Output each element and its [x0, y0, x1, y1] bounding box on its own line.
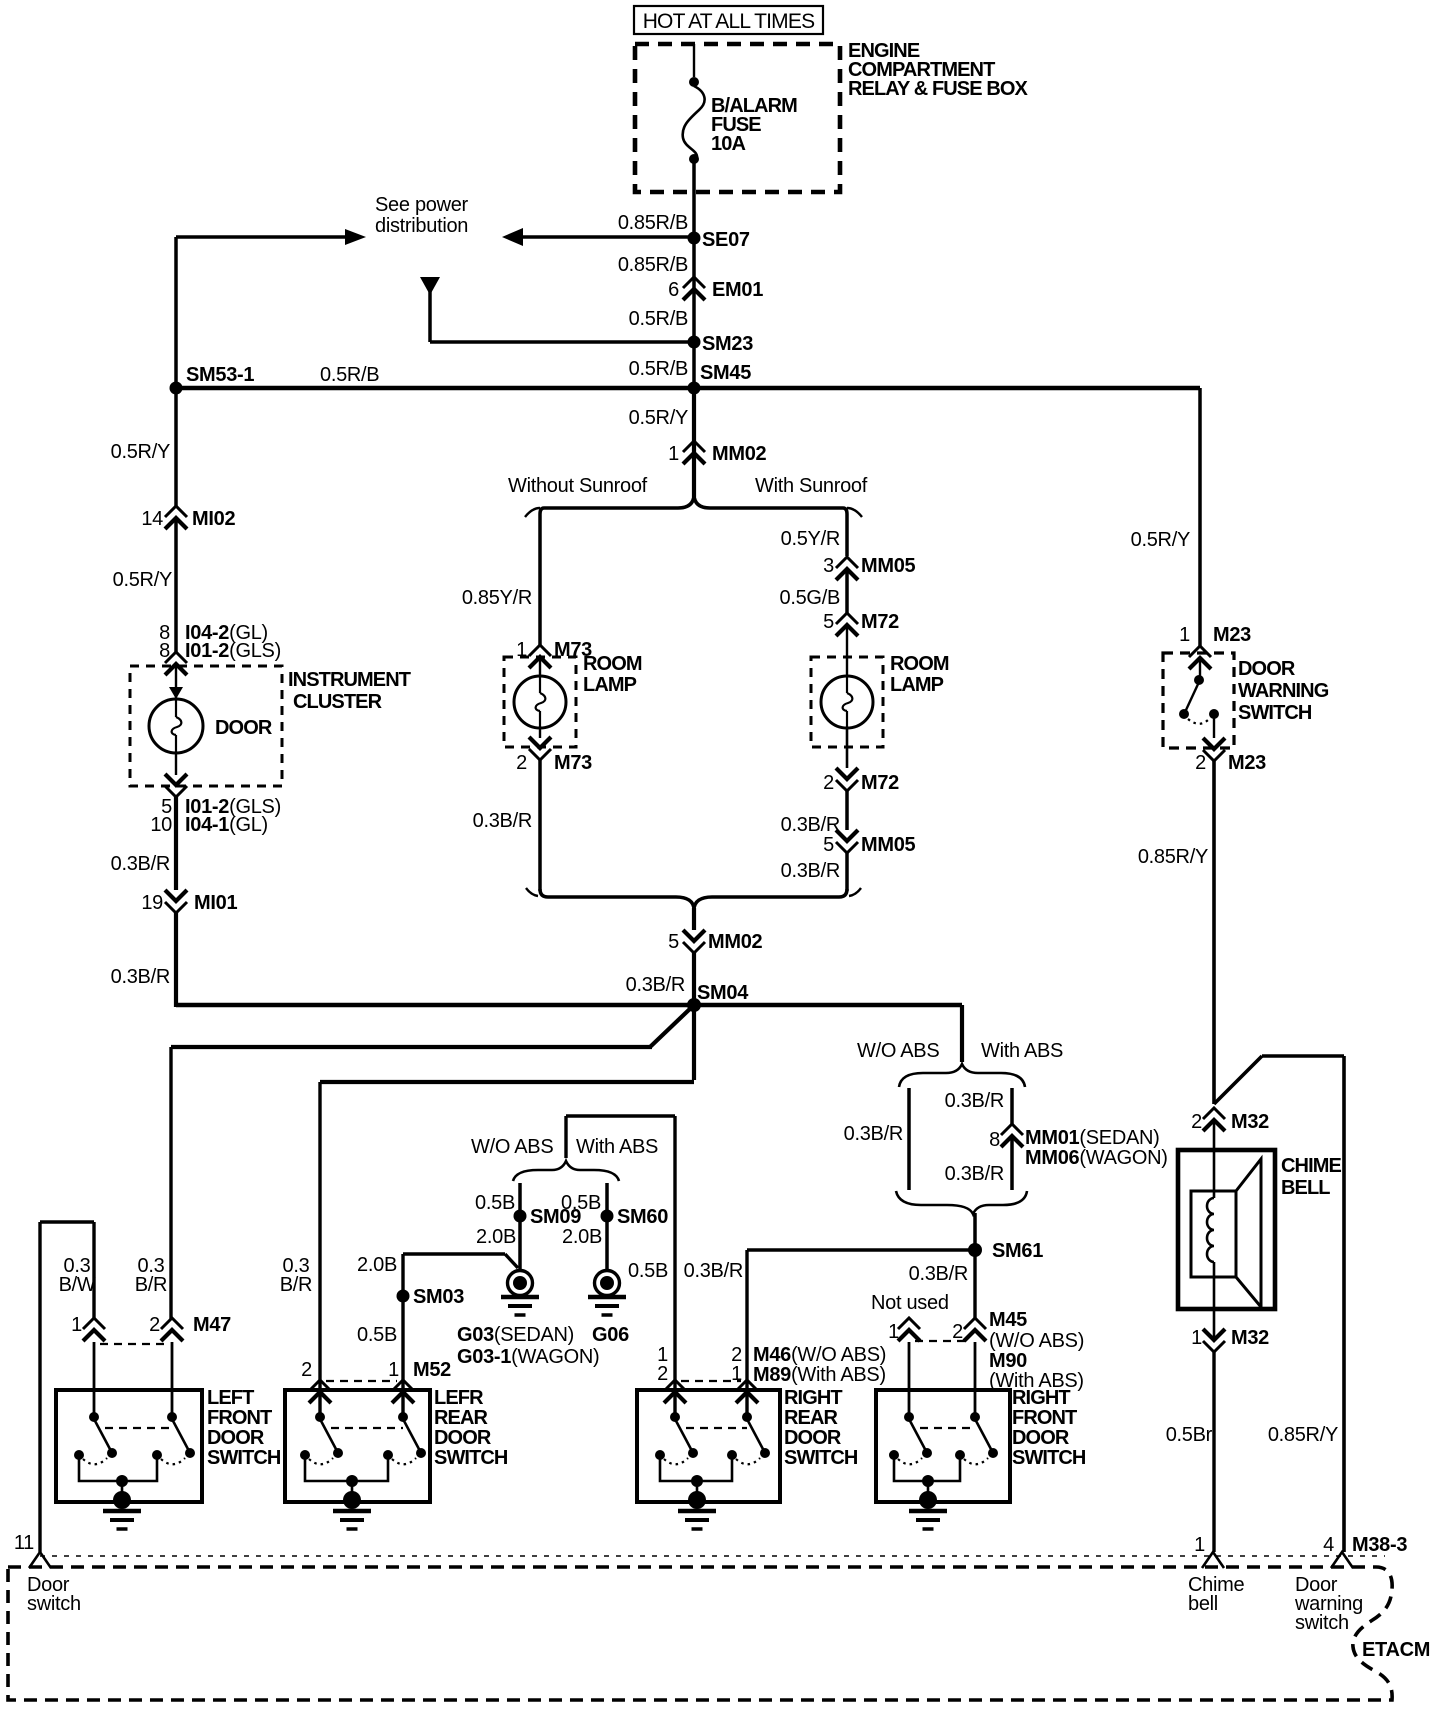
svg-text:0.3B/W: 0.3B/W: [59, 1255, 96, 1296]
svg-text:G03(SEDAN): G03(SEDAN): [457, 1324, 574, 1346]
wire bypass to door warning ETACM pin 4: [1214, 1056, 1344, 1552]
svg-text:5: 5: [823, 611, 834, 633]
svg-text:6: 6: [668, 279, 679, 301]
connector M45/M90 pins 1 2: [888, 1318, 986, 1343]
svg-text:0.3B/R: 0.3B/R: [844, 1123, 903, 1145]
wire 0.5B left (W/O ABS): [475, 1183, 520, 1272]
svg-text:0.3B/R: 0.3B/R: [473, 810, 532, 832]
svg-text:EM01: EM01: [712, 279, 763, 301]
svg-text:M32: M32: [1231, 1327, 1269, 1349]
wire 0.3 B/R to left front pin 2: [169, 1047, 172, 1320]
svg-text:HOT AT ALL TIMES: HOT AT ALL TIMES: [643, 10, 815, 33]
svg-text:2.0B: 2.0B: [562, 1226, 602, 1248]
svg-text:0.5B: 0.5B: [628, 1260, 668, 1282]
svg-text:0.5B: 0.5B: [475, 1192, 515, 1214]
svg-text:LEFRREARDOORSWITCH: LEFRREARDOORSWITCH: [434, 1387, 508, 1469]
wire 0.3B/R to SM04: [626, 953, 694, 1005]
connector M73 pin 2: [516, 728, 592, 774]
svg-text:Doorswitch: Doorswitch: [27, 1574, 81, 1615]
svg-text:1: 1: [888, 1321, 899, 1343]
wire SM61 to right rear pin 2: [747, 1250, 975, 1417]
svg-text:2: 2: [952, 1321, 963, 1343]
svg-text:DOORWARNINGSWITCH: DOORWARNINGSWITCH: [1238, 658, 1329, 724]
node SM09: [514, 1206, 582, 1228]
svg-text:0.85R/B: 0.85R/B: [618, 254, 688, 276]
svg-text:W/O ABS: W/O ABS: [857, 1040, 939, 1062]
svg-text:I01-2(GLS): I01-2(GLS): [185, 640, 281, 662]
wire 0.5R/Y: [111, 388, 176, 506]
svg-text:I04-1(GL): I04-1(GL): [185, 814, 268, 836]
svg-text:RIGHTREARDOORSWITCH: RIGHTREARDOORSWITCH: [784, 1387, 858, 1469]
connector chevrons right rear pins: [664, 1380, 758, 1403]
svg-text:Not used: Not used: [871, 1292, 949, 1314]
svg-text:M46(W/O ABS): M46(W/O ABS): [753, 1344, 886, 1366]
svg-text:MI02: MI02: [192, 508, 235, 530]
svg-text:5: 5: [823, 834, 834, 856]
wire 0.5B right rear pin 1 feed: [566, 1116, 675, 1417]
svg-text:DOOR: DOOR: [215, 717, 273, 739]
wire arrow to see power distribution (left): [502, 228, 694, 246]
svg-text:8: 8: [989, 1129, 1000, 1151]
svg-text:0.5G/B: 0.5G/B: [780, 587, 840, 609]
connector M73 pin 1: [516, 639, 592, 668]
svg-text:12: 12: [657, 1344, 668, 1385]
wire 0.3B/R left branch: [844, 1088, 909, 1190]
svg-text:See powerdistribution: See powerdistribution: [375, 194, 469, 237]
connector M52 pins 2 1: [301, 1359, 451, 1403]
svg-text:0.5Br: 0.5Br: [1166, 1424, 1213, 1446]
svg-text:0.85R/Y: 0.85R/Y: [1138, 846, 1208, 868]
connector I01-2/I04-1 pins 5/10: [161, 753, 281, 818]
svg-text:With ABS: With ABS: [981, 1040, 1063, 1062]
wire harness split without/with sunroof: [525, 494, 862, 645]
engine compartment relay & fuse box (dashed): [635, 40, 1029, 192]
svg-text:SE07: SE07: [702, 229, 750, 251]
svg-text:M52: M52: [413, 1359, 451, 1381]
wire 2.0B from SM03 to ground: [357, 1254, 518, 1276]
svg-text:0.3B/R: 0.3B/R: [945, 1163, 1004, 1185]
svg-text:W/O ABS: W/O ABS: [471, 1136, 553, 1158]
svg-text:2: 2: [1191, 1111, 1202, 1133]
svg-text:(W/O ABS): (W/O ABS): [989, 1330, 1084, 1352]
wire 0.3B/R lower: [111, 913, 176, 1007]
svg-text:0.5Y/R: 0.5Y/R: [781, 528, 840, 550]
connector M23 pin 2: [1195, 738, 1266, 774]
svg-text:B/ALARMFUSE10A: B/ALARMFUSE10A: [711, 95, 797, 155]
room lamp (without sunroof) dashed box: [504, 657, 576, 747]
connector ETACM pin 1 chime bell: [1194, 1534, 1224, 1568]
buzzer chime bell speaker symbol: [1191, 1120, 1261, 1338]
svg-text:3: 3: [823, 555, 834, 577]
svg-text:M45: M45: [989, 1309, 1027, 1331]
fuse B/ALARM FUSE 10A: [683, 44, 797, 240]
svg-text:1: 1: [1194, 1534, 1205, 1556]
connector M46/M89 labels right rear: [657, 1344, 886, 1386]
svg-text:11: 11: [14, 1532, 34, 1554]
svg-text:0.85R/Y: 0.85R/Y: [1268, 1424, 1338, 1446]
svg-text:19: 19: [141, 892, 163, 914]
connector M72 pin 2: [823, 728, 899, 794]
wire 0.3B/R left branch: [473, 760, 540, 891]
transistor LEFT FRONT DOOR SWITCH: [56, 1342, 281, 1529]
svg-text:5: 5: [668, 931, 679, 953]
connector M72 pin 5: [823, 611, 899, 636]
wire 0.85R/Y: [1138, 761, 1214, 1104]
lamp room lamp right: [821, 625, 873, 728]
wire from SM04 to right ABS split: [960, 1005, 964, 1062]
node SM23: [688, 333, 754, 355]
svg-text:INSTRUMENTCLUSTER: INSTRUMENTCLUSTER: [288, 669, 411, 713]
svg-text:MM02: MM02: [712, 443, 767, 465]
wire SM45 horizontal bus: [176, 386, 1200, 390]
svg-text:Chimebell: Chimebell: [1188, 1574, 1244, 1615]
svg-text:10: 10: [150, 814, 172, 836]
svg-text:ROOMLAMP: ROOMLAMP: [890, 653, 949, 696]
svg-text:2: 2: [149, 1314, 160, 1336]
svg-text:SM45: SM45: [700, 362, 751, 384]
ground G06: [588, 1271, 626, 1316]
wire brace merge right: [896, 1191, 1027, 1214]
node SM45: [688, 362, 752, 395]
connector MI01 pin 19: [141, 890, 237, 914]
svg-text:2: 2: [823, 772, 834, 794]
svg-text:LEFTFRONTDOORSWITCH: LEFTFRONTDOORSWITCH: [207, 1387, 281, 1469]
wire 0.3B/R below MM01: [945, 1136, 1012, 1190]
connector MI02 pin 14: [141, 506, 235, 530]
svg-text:0.3B/R: 0.3B/R: [111, 853, 170, 875]
svg-text:2: 2: [1195, 752, 1206, 774]
wire 0.5B right (With ABS): [561, 1183, 607, 1272]
svg-text:0.5R/Y: 0.5R/Y: [113, 569, 172, 591]
lamp DOOR indicator: [149, 664, 273, 753]
ground G03: [501, 1271, 539, 1316]
connector MM05 pin 3: [823, 555, 915, 580]
svg-text:M47: M47: [193, 1314, 231, 1336]
node ETACM box (dashed outline): [8, 1567, 1392, 1700]
wire harness merge to MM02 pin 5: [526, 888, 861, 930]
wire 0.3B/R: [781, 791, 847, 836]
wire diagonal from SM04 to left door switches: [171, 1005, 694, 1047]
svg-text:M90: M90: [989, 1350, 1027, 1372]
svg-text:M89(With ABS): M89(With ABS): [753, 1364, 886, 1386]
wire brace split right: [899, 1064, 1025, 1087]
svg-text:0.5B: 0.5B: [357, 1324, 397, 1346]
wire 0.5R/Y right column: [1131, 388, 1200, 646]
svg-text:2: 2: [516, 752, 527, 774]
svg-text:4: 4: [1323, 1534, 1334, 1556]
connector EM01 pin 6: [668, 277, 763, 301]
svg-text:Doorwarningswitch: Doorwarningswitch: [1294, 1574, 1363, 1634]
node HOT AT ALL TIMES: [634, 6, 823, 34]
svg-text:0.5B: 0.5B: [561, 1192, 601, 1214]
svg-text:MM05: MM05: [861, 834, 916, 856]
svg-text:SM04: SM04: [697, 982, 749, 1004]
connector ETACM pin 4 door warning switch M38-3: [1323, 1534, 1407, 1568]
wire 0.5Br: [1166, 1352, 1214, 1552]
svg-text:0.85R/B: 0.85R/B: [618, 212, 688, 234]
wire 0.3B/R above MM01: [945, 1088, 1012, 1124]
node SM61: [968, 1213, 1043, 1262]
svg-text:0.5R/Y: 0.5R/Y: [1131, 529, 1190, 551]
svg-text:0.5R/Y: 0.5R/Y: [111, 441, 170, 463]
node SM04: [176, 982, 962, 1012]
svg-text:M72: M72: [861, 611, 899, 633]
svg-text:0.3B/R: 0.3B/R: [280, 1255, 312, 1296]
svg-text:0.3B/R: 0.3B/R: [111, 966, 170, 988]
connector MM05 pin 5: [823, 830, 915, 856]
wire 0.3B/R below SM61: [909, 1250, 975, 1320]
svg-text:0.5R/B: 0.5R/B: [629, 308, 688, 330]
svg-text:M38-3: M38-3: [1352, 1534, 1407, 1556]
lamp room lamp left: [514, 657, 566, 728]
svg-text:1: 1: [668, 443, 679, 465]
svg-text:2: 2: [301, 1359, 312, 1381]
svg-text:0.3B/R: 0.3B/R: [909, 1263, 968, 1285]
svg-text:CHIMEBELL: CHIMEBELL: [1281, 1155, 1342, 1199]
wire brace split center grounds: [513, 1161, 619, 1181]
svg-text:0.3B/R: 0.3B/R: [945, 1090, 1004, 1112]
chime bell box: [1178, 1150, 1275, 1309]
svg-text:MM06(WAGON): MM06(WAGON): [1025, 1147, 1168, 1169]
svg-text:MM02: MM02: [708, 931, 763, 953]
door warning switch dashed box: [1163, 653, 1234, 748]
svg-text:SM23: SM23: [702, 333, 753, 355]
wire main column SE07..SM45: [692, 240, 696, 388]
wire 0.5R/Y below SM45: [629, 388, 694, 497]
connector MM02 pin 5: [668, 930, 762, 953]
svg-text:M23: M23: [1228, 752, 1266, 774]
svg-text:G03-1(WAGON): G03-1(WAGON): [457, 1346, 599, 1368]
svg-text:1: 1: [388, 1359, 399, 1381]
wire from power distribution incoming arrow: [420, 277, 694, 342]
svg-text:1: 1: [1191, 1327, 1202, 1349]
svg-text:0.5R/Y: 0.5R/Y: [629, 407, 688, 429]
svg-text:SM60: SM60: [617, 1206, 668, 1228]
svg-text:2.0B: 2.0B: [476, 1226, 516, 1248]
svg-text:M23: M23: [1213, 624, 1251, 646]
instrument cluster dashed box: [130, 666, 282, 786]
svg-text:RIGHTFRONTDOORSWITCH: RIGHTFRONTDOORSWITCH: [1012, 1387, 1086, 1469]
svg-text:SM61: SM61: [992, 1240, 1043, 1262]
connector M23 pin 1: [1179, 624, 1251, 669]
svg-text:MM01(SEDAN): MM01(SEDAN): [1025, 1127, 1160, 1149]
svg-text:ROOMLAMP: ROOMLAMP: [583, 653, 642, 696]
node SM60: [601, 1206, 669, 1228]
svg-text:G06: G06: [592, 1324, 629, 1346]
svg-text:8: 8: [159, 640, 170, 662]
wire 0.5R/Y: [113, 518, 176, 652]
svg-text:MI01: MI01: [194, 892, 237, 914]
svg-text:M32: M32: [1231, 1111, 1269, 1133]
wire 0.5G/B: [780, 569, 847, 613]
connector M47 pins 1 2: [71, 1314, 231, 1344]
node SM53-1: [170, 364, 255, 395]
connector I04-2/I01-2 pin 8: [159, 622, 268, 675]
svg-text:1: 1: [1179, 624, 1190, 646]
svg-text:0.5R/B: 0.5R/B: [629, 358, 688, 380]
svg-text:MM05: MM05: [861, 555, 916, 577]
wire 0.3B/R: [781, 853, 847, 891]
wire arrow from SM53-1 column (right-pointing): [176, 229, 366, 245]
connector MM02 pin 1: [668, 441, 766, 465]
svg-text:0.3B/R: 0.3B/R: [781, 814, 840, 836]
svg-text:21: 21: [731, 1344, 742, 1385]
svg-text:14: 14: [141, 508, 163, 530]
svg-text:0.85Y/R: 0.85Y/R: [462, 587, 532, 609]
svg-text:0.3B/R: 0.3B/R: [684, 1260, 743, 1282]
svg-text:0.3B/R: 0.3B/R: [781, 860, 840, 882]
wire SM53-1 column upper: [174, 237, 178, 388]
switch door warning internal: [1179, 658, 1219, 738]
svg-text:0.3B/R: 0.3B/R: [626, 974, 685, 996]
svg-text:0.3B/R: 0.3B/R: [135, 1255, 167, 1296]
wire 0.3 B/W left front pin 1 loop: [40, 1222, 94, 1552]
svg-text:ENGINECOMPARTMENTRELAY & FUSE: ENGINECOMPARTMENTRELAY & FUSE BOX: [848, 40, 1029, 100]
svg-text:0.5R/B: 0.5R/B: [320, 364, 379, 386]
room lamp (with sunroof) dashed box: [811, 657, 883, 747]
svg-text:SM53-1: SM53-1: [186, 364, 254, 386]
svg-text:M72: M72: [861, 772, 899, 794]
transistor RIGHT REAR DOOR SWITCH: [637, 1387, 858, 1529]
connector M32 pin 1: [1191, 1327, 1269, 1352]
node SE07: [688, 229, 750, 251]
connector M32 pin 2: [1191, 1108, 1269, 1133]
svg-text:With Sunroof: With Sunroof: [755, 475, 868, 497]
svg-text:1: 1: [71, 1314, 82, 1336]
wire 0.3B/R: [111, 797, 176, 890]
svg-text:With ABS: With ABS: [576, 1136, 658, 1158]
wire from SM04 down to left rear pin 2: [320, 1005, 694, 1417]
svg-text:Without Sunroof: Without Sunroof: [508, 475, 648, 497]
connector MM01(SEDAN)/MM06(WAGON) pin 8: [989, 1124, 1167, 1169]
svg-text:SM03: SM03: [413, 1286, 464, 1308]
node SM03: [397, 1254, 465, 1417]
connector ETACM pin 11 door switch: [14, 1532, 51, 1568]
svg-text:ETACM: ETACM: [1362, 1639, 1430, 1661]
svg-text:2.0B: 2.0B: [357, 1254, 397, 1276]
transistor RIGHT FRONT DOOR SWITCH: [876, 1342, 1086, 1529]
svg-text:M73: M73: [554, 752, 592, 774]
node ETACM connector row (thin dashed): [40, 1555, 1385, 1557]
transistor LEFR REAR DOOR SWITCH: [285, 1387, 508, 1529]
